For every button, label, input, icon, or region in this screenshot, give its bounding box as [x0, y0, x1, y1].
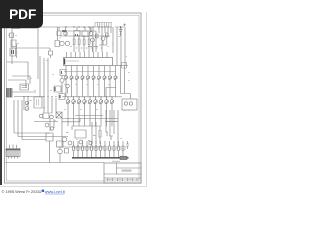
resistor R14 — [96, 34, 99, 38]
transistor Q33 — [79, 140, 83, 144]
transistor Q3 — [91, 38, 95, 42]
wire — [44, 97, 56, 113]
dark block at bar end — [120, 156, 127, 159]
frame inner border — [7, 15, 140, 181]
IC U8 with dark marks — [10, 48, 16, 56]
title text smudge — [122, 170, 132, 172]
wire long bottom — [5, 162, 104, 164]
connector J3 bottom left — [6, 149, 20, 157]
scattered value labels — [15, 35, 130, 140]
wire — [16, 44, 18, 58]
ground bus bar — [72, 157, 129, 159]
transistor Q38 — [50, 127, 53, 130]
wire mid vertical — [57, 27, 59, 40]
wire — [7, 91, 37, 93]
resistor R11 — [43, 113, 49, 119]
wire — [58, 146, 104, 148]
wire — [40, 56, 48, 97]
IC U9 — [34, 97, 42, 108]
box B3 — [65, 149, 69, 154]
capacitor C5 — [89, 32, 93, 36]
wire short risers — [62, 119, 80, 123]
wire — [14, 100, 68, 140]
transistor Q3b — [101, 37, 105, 41]
wire row2 top line — [62, 96, 122, 98]
transistor Q7b — [25, 107, 29, 111]
wire — [62, 76, 68, 94]
wire cross — [105, 121, 118, 123]
transistor Q31 — [62, 137, 67, 142]
IC U2 small — [55, 41, 60, 47]
diode D3 on line — [46, 133, 53, 163]
page right edge — [146, 12, 147, 187]
resistor R13 — [99, 131, 101, 145]
resistor R15 — [106, 33, 109, 37]
junction dots — [65, 26, 108, 36]
wire — [24, 97, 28, 111]
title block divider vertical — [116, 163, 118, 174]
IC U1 dark end — [64, 59, 66, 65]
wire IC bottom line extension — [113, 65, 129, 67]
transistor Q1 — [60, 41, 64, 45]
wire — [93, 37, 108, 52]
connector feet — [9, 157, 18, 159]
transistor Q6 — [66, 84, 70, 88]
box U10 — [59, 94, 65, 100]
title block rows — [104, 168, 141, 178]
transistor Q35 — [129, 102, 132, 105]
small box B2 — [57, 31, 61, 36]
connector top pins — [10, 145, 17, 149]
IC U1 pins bottom — [66, 66, 116, 75]
wire — [66, 31, 96, 36]
resistor R6 — [88, 36, 90, 52]
upper stratum boxes — [74, 31, 88, 37]
wire — [50, 119, 54, 131]
transistor Q32 — [68, 141, 72, 145]
transistor row 1: Q10-Q19 — [64, 74, 117, 97]
junction dots — [125, 109, 129, 111]
row2 junction dots — [67, 96, 112, 97]
bottom row R20-R32 — [73, 141, 126, 158]
transistor Q2 — [65, 41, 69, 45]
junction dots mid — [23, 96, 56, 97]
tiny labels bottom cluster — [66, 132, 95, 141]
box with X — [56, 112, 62, 118]
left component chain: wire — [12, 27, 20, 64]
bottom band smudges — [104, 179, 141, 181]
bus collect lines — [62, 116, 118, 119]
transistor Q30 — [50, 115, 54, 119]
transistor Q9 — [39, 114, 43, 118]
wire right bypass — [121, 66, 131, 100]
diode D4 — [89, 142, 92, 145]
resistor R7 — [49, 51, 53, 58]
transistor Q36 — [58, 149, 63, 154]
resistor R10 — [20, 84, 29, 90]
wire — [7, 62, 29, 80]
link — [42, 190, 44, 192]
box U7 — [57, 141, 64, 147]
resistor R5 — [83, 36, 85, 52]
capacitor C2 — [126, 141, 129, 149]
left dark page edge — [0, 0, 2, 185]
page bottom edge — [0, 186, 147, 187]
value labels — [76, 48, 103, 49]
svg-text:PDF: PDF — [9, 7, 36, 22]
junction dot — [120, 26, 121, 27]
wire — [39, 48, 50, 51]
wire join — [14, 96, 44, 98]
resistor R2 — [11, 40, 16, 47]
wire left long vertical — [37, 27, 39, 79]
PDF badge — [0, 0, 43, 28]
wire — [14, 47, 39, 49]
capacitor C100 top right — [115, 27, 125, 36]
wire — [62, 122, 100, 147]
small parts below — [106, 132, 113, 140]
connector J2 dark block — [7, 89, 13, 98]
transistor Q5 — [60, 79, 64, 83]
transistor row 2: Q20-Q28 — [66, 97, 114, 126]
resistor R3 — [73, 36, 75, 52]
wire — [34, 121, 58, 123]
capacitor C7 right of IC — [122, 63, 127, 69]
wire top bus — [38, 26, 112, 28]
right cluster box U5 — [122, 99, 137, 110]
wire ladder top — [95, 22, 112, 24]
wire — [59, 147, 61, 163]
resistor R4 — [78, 36, 80, 52]
ladder ticks — [95, 23, 111, 28]
wire — [88, 46, 98, 48]
transistor Q7 — [25, 101, 29, 105]
transistor Q34 — [124, 102, 127, 105]
wire row1 top line — [64, 71, 116, 73]
title block outline — [104, 163, 141, 183]
resistor R9 — [60, 70, 66, 76]
svg-text:www.l-net.it: www.l-net.it — [45, 189, 66, 194]
wire — [8, 76, 30, 88]
wire — [106, 110, 118, 148]
wire verticals dense — [90, 27, 111, 52]
wire — [59, 27, 91, 32]
tiny labels — [30, 100, 53, 113]
dark blob start of line — [62, 30, 67, 32]
IC U1 pins top — [67, 52, 108, 58]
title block bottom ticks — [108, 178, 138, 181]
relay K1 — [54, 86, 61, 92]
IC U1 internal line — [66, 60, 79, 62]
plus mark — [123, 23, 126, 26]
resistor R1 — [8, 33, 14, 38]
wire bus — [60, 35, 110, 37]
svg-text:© 1995 Wersi Fr 20332: © 1995 Wersi Fr 20332 — [2, 189, 42, 194]
wire verticals — [92, 122, 100, 144]
IC U1 big — [64, 58, 113, 66]
wire row1 collect — [106, 88, 116, 98]
transistor Q29 — [45, 123, 49, 127]
tiny top label — [112, 161, 120, 162]
frame outer border — [5, 13, 142, 183]
page background — [0, 0, 147, 187]
capacitor C6 — [64, 32, 68, 36]
IC U4 — [75, 130, 86, 138]
right vertical bus — [113, 27, 125, 66]
